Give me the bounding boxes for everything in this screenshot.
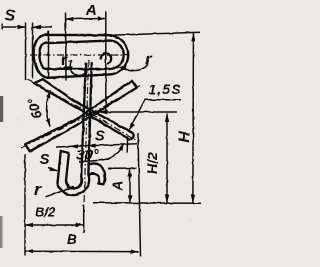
dim H/2 line — [166, 114, 168, 203]
centerline stem vertical — [84, 60, 89, 205]
dim S top line — [2, 24, 52, 31]
dim B line — [25, 250, 139, 252]
arc 30deg arrow — [118, 144, 124, 151]
centerline arm lower-right — [91, 114, 136, 140]
dim B extension right — [138, 133, 141, 256]
dim H arrows — [191, 33, 196, 203]
X strip 1 LR rounded end — [128, 133, 133, 140]
leader r bottom — [46, 187, 75, 197]
X strip 2 LL end cut — [25, 144, 30, 151]
paper smudge left edge — [0, 96, 3, 122]
centerline arm upper-right — [91, 86, 140, 114]
X strip 1 UL end cut — [34, 79, 43, 83]
leader 1,5S — [128, 100, 181, 131]
loop right inner arc — [110, 41, 124, 69]
dim H top extension line — [102, 32, 200, 35]
loop bottom inner edge — [45, 68, 109, 71]
dim H/2 extension line — [99, 111, 178, 113]
svg-text:B/2: B/2 — [35, 205, 56, 220]
svg-text:A: A — [111, 181, 127, 192]
leader r top arrow — [118, 65, 127, 70]
U-turn outer arc — [58, 174, 90, 195]
X strip 2 lower edge — [30, 88, 137, 152]
dim A top extension left — [65, 13, 68, 82]
loop top inner edge — [45, 41, 109, 44]
dim B/2 arrows — [25, 223, 84, 227]
svg-text:H/2: H/2 — [144, 152, 160, 174]
dim A top arrows — [66, 16, 106, 21]
leader S left arrow — [49, 167, 58, 171]
stem right edge — [88, 63, 91, 174]
dim H/2 arrows — [165, 114, 169, 203]
X strip 1 upper edge (UL to LR) — [43, 79, 132, 132]
dim A right arrows — [128, 169, 132, 203]
dim S mid line — [56, 144, 137, 147]
svg-text:B: B — [67, 232, 77, 247]
dim A right extension top — [108, 167, 136, 169]
svg-text:1,5S: 1,5S — [149, 82, 182, 97]
X strip 2 upper edge (LL to UR) — [25, 81, 132, 145]
dim B/2 extension left — [24, 154, 26, 256]
loop left outer C — [34, 35, 48, 78]
U left strip end cut — [61, 151, 69, 153]
dim H line — [192, 34, 195, 203]
svg-text:H: H — [177, 131, 194, 143]
leader 1,5S arrow — [129, 123, 135, 131]
crook outer — [88, 163, 105, 184]
leader S left — [48, 168, 57, 171]
loop spiral curl end — [101, 53, 111, 63]
arc 60deg — [47, 90, 51, 126]
svg-text:S: S — [40, 151, 50, 168]
centerline arm lower-left — [21, 114, 91, 148]
loop top outer edge — [45, 34, 107, 37]
X strip 1 lower edge — [34, 83, 128, 138]
dim H/2 extension arrow — [99, 110, 108, 115]
svg-text:S: S — [95, 129, 105, 145]
U left strip inner edge — [66, 153, 69, 181]
dim S top extension lines — [26, 23, 33, 81]
arc 60deg arrows — [46, 90, 50, 126]
crook end cut — [98, 182, 103, 185]
loop left inner C — [39, 43, 45, 69]
dim A right line — [129, 169, 131, 203]
arc 30deg — [79, 145, 123, 162]
stem left edge + U inner arc — [66, 63, 86, 188]
leader r top — [121, 65, 148, 71]
U left strip outer edge — [58, 151, 61, 183]
dim A top line — [66, 18, 106, 21]
svg-text:A: A — [85, 2, 97, 19]
paper smudge left edge lower — [0, 216, 3, 248]
leader r bottom arrow — [67, 186, 75, 190]
dim B arrows — [25, 249, 139, 254]
X strip 2 UR end cut — [132, 81, 137, 88]
loop bottom outer edge — [48, 74, 110, 77]
leader r1 bracket — [64, 67, 88, 75]
centerline left ring vertical — [47, 31, 49, 79]
crook inner — [88, 174, 99, 184]
dim B/2 extension centerline — [83, 205, 85, 233]
centerline loop axis — [30, 54, 128, 56]
loop right outer arc — [107, 35, 128, 74]
baseline bottom extension — [93, 202, 201, 204]
dim A top extension right / ring axis — [105, 11, 107, 112]
tick near arm tip — [126, 137, 128, 153]
paper specks — [17, 29, 190, 250]
dim B/2 line — [25, 224, 84, 226]
dim S mid arrows — [70, 144, 96, 149]
centerline arm upper-left — [27, 80, 91, 114]
svg-text:S: S — [5, 8, 16, 25]
dim S top arrows — [18, 25, 42, 29]
